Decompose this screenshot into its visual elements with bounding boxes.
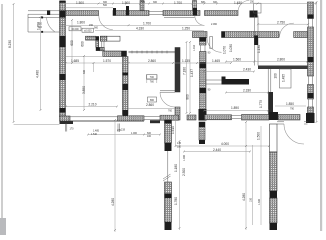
wall W6 right-lower vertical thin part — [268, 69, 271, 92]
svg-text:900: 900 — [94, 27, 99, 30]
pier in W2 — [126, 6, 129, 16]
door arc in W3 left — [207, 38, 222, 53]
svg-text:±0.000: ±0.000 — [84, 29, 92, 32]
svg-text:2.060: 2.060 — [211, 23, 218, 26]
wall W3 horizontal mid-right segment a — [193, 32, 208, 38]
window in W2 — [149, 12, 163, 15]
svg-text:100: 100 — [274, 73, 278, 79]
svg-text:700: 700 — [150, 76, 155, 79]
left margin dim line — [13, 4, 15, 122]
dim line 2.210 — [66, 106, 117, 108]
wall bottom exterior left corner hatch — [60, 116, 71, 121]
svg-text:1.485: 1.485 — [282, 74, 286, 82]
svg-text:1.430: 1.430 — [234, 1, 242, 5]
svg-text:1.500: 1.500 — [76, 1, 84, 5]
wall top exterior W2 segment a — [66, 11, 99, 16]
svg-text:1.000: 1.000 — [131, 132, 138, 135]
svg-text:1.570: 1.570 — [103, 59, 111, 63]
svg-text:2.860: 2.860 — [148, 59, 156, 63]
svg-text:1.000: 1.000 — [183, 154, 186, 161]
svg-text:780: 780 — [150, 80, 155, 83]
wall top exterior W2 segment d — [205, 11, 239, 16]
pier in W2 — [113, 8, 116, 16]
dim line y146 below — [176, 145, 270, 147]
wall W9 interior vertical dark — [175, 48, 180, 93]
svg-text:7.180: 7.180 — [182, 67, 186, 75]
bathroom L-wall horizontal — [222, 79, 250, 85]
svg-text:4.000: 4.000 — [221, 142, 229, 146]
page bottom edge shadow — [0, 218, 6, 235]
bathroom L-wall vertical — [222, 77, 226, 85]
svg-text:100: 100 — [177, 146, 182, 149]
svg-text:150: 150 — [249, 197, 252, 202]
svg-text:1.250: 1.250 — [182, 27, 190, 31]
svg-text:250: 250 — [250, 0, 255, 3]
svg-text:4.280: 4.280 — [111, 198, 115, 206]
door leaf at W9 — [160, 91, 175, 93]
svg-text:1.700: 1.700 — [143, 21, 151, 25]
wall W5 horizontal dark right — [258, 66, 308, 70]
dim line 2.860 lower — [129, 107, 176, 109]
svg-text:170: 170 — [70, 128, 75, 131]
black block bottom wall — [269, 112, 278, 120]
dim verticals bottom right — [253, 126, 262, 225]
svg-text:4.280: 4.280 — [242, 193, 246, 201]
chimney stub above W2 — [193, 1, 197, 11]
door arc bottom right — [284, 124, 304, 144]
svg-text:500: 500 — [141, 1, 146, 4]
door arc in W2 right end — [238, 0, 249, 11]
svg-text:1.685: 1.685 — [71, 59, 79, 63]
door jambs bottom wall — [232, 115, 242, 118]
dim vertical x84 — [83, 56, 85, 110]
dim line 1.850 — [275, 105, 306, 107]
wall W3 segment c — [294, 32, 308, 38]
svg-text:150: 150 — [89, 24, 94, 27]
dim line 2.330 — [226, 92, 268, 94]
level boxes entry — [69, 27, 81, 31]
wall top exterior W2 segment b — [113, 11, 149, 16]
jamb piece in W3 door gap — [210, 37, 213, 49]
wall below-plan left vertical — [165, 120, 172, 143]
svg-text:1.560: 1.560 — [233, 58, 241, 62]
svg-text:1.610: 1.610 — [171, 126, 175, 134]
pillar box above W2 end — [254, 3, 261, 13]
terrace side jambs below — [65, 124, 119, 133]
svg-text:219: 219 — [121, 129, 126, 132]
chimney stub above W2 — [140, 1, 144, 11]
wall bottom segment d — [278, 115, 300, 121]
WC wall vertical — [96, 40, 99, 47]
svg-text:680: 680 — [201, 1, 206, 4]
wall W4 black block — [254, 36, 258, 46]
wall top exterior W2 segment c — [163, 11, 200, 16]
svg-text:±0.000: ±0.000 — [71, 28, 79, 31]
dim vertical x179.5 below — [179, 141, 181, 230]
dim below plan left — [14, 124, 60, 126]
svg-text:2.500: 2.500 — [182, 168, 186, 176]
dim vertical x246 below — [245, 122, 247, 230]
partition lines right below plan — [277, 122, 308, 124]
svg-text:1.500: 1.500 — [257, 132, 261, 140]
WC wall to W10 — [100, 47, 105, 50]
svg-text:1.070: 1.070 — [223, 46, 227, 54]
svg-text:1.485: 1.485 — [93, 130, 100, 133]
svg-text:1.850: 1.850 — [286, 102, 294, 106]
window in bottom wall — [144, 116, 160, 119]
svg-text:1.130: 1.130 — [257, 45, 261, 53]
corner block bottom right — [306, 113, 315, 123]
wall bottom segment at W8 — [118, 116, 145, 121]
svg-text:4.330: 4.330 — [136, 27, 144, 31]
wall W10 hatched band — [103, 51, 127, 57]
door arc in W3 right to terrace — [280, 23, 294, 37]
page right edge shadow — [320, 0, 322, 231]
svg-text:860: 860 — [186, 94, 190, 100]
door arc in W2 mid-right — [195, 16, 205, 26]
porch outline — [28, 14, 60, 32]
dim line y56.5 left — [66, 56, 104, 58]
svg-text:760: 760 — [168, 110, 173, 113]
dim line 1.890 — [204, 110, 268, 112]
dim line y151 below — [184, 151, 250, 153]
wall bottom segment mid — [160, 115, 179, 120]
svg-text:1.890: 1.890 — [231, 106, 239, 110]
dim line 2.750 terrace — [258, 23, 308, 25]
svg-text:2.800: 2.800 — [277, 58, 285, 62]
left inner dim line — [40, 17, 42, 110]
porch pier — [47, 10, 50, 15]
door arc in W9 — [160, 92, 175, 107]
WC wall horizontal hatched — [86, 36, 96, 40]
svg-text:1.010: 1.010 — [193, 44, 196, 51]
svg-text:2.430: 2.430 — [243, 68, 251, 72]
top dim line 1 — [62, 3, 316, 5]
svg-text:1.540: 1.540 — [91, 133, 98, 136]
svg-text:1.700: 1.700 — [36, 22, 40, 30]
svg-text:100: 100 — [147, 135, 152, 138]
dark lip under bottom wall left — [60, 121, 74, 124]
svg-text:300: 300 — [153, 1, 158, 4]
wall bottom segment c — [242, 115, 270, 121]
svg-text:3.850: 3.850 — [82, 86, 86, 94]
svg-text:1.500: 1.500 — [122, 1, 130, 5]
svg-text:2.330: 2.330 — [243, 89, 251, 93]
svg-text:860: 860 — [150, 99, 155, 102]
dim vertical x93.5 — [93, 63, 95, 72]
wall bottom small segment — [187, 115, 196, 120]
svg-text:1.775: 1.775 — [259, 100, 263, 108]
porch hinge nubs — [41, 17, 43, 19]
svg-text:8.230: 8.230 — [8, 40, 12, 48]
svg-text:2.210: 2.210 — [89, 103, 97, 107]
svg-text:1.780: 1.780 — [174, 197, 178, 205]
wall right exterior W7 — [308, 2, 314, 19]
svg-text:790: 790 — [290, 108, 295, 111]
dim line below windows — [88, 134, 160, 136]
wall W3 segment b — [222, 32, 280, 38]
corner block end of W2 — [250, 11, 258, 18]
svg-text:2.440: 2.440 — [213, 148, 221, 152]
svg-text:1.030: 1.030 — [229, 44, 233, 52]
door leaf rect right-mid — [280, 69, 292, 88]
svg-text:1.300: 1.300 — [258, 198, 261, 205]
svg-text:1.800: 1.800 — [77, 21, 85, 25]
wall stub below plan mid — [199, 122, 205, 140]
dim line 2.430 — [204, 71, 254, 73]
svg-text:270: 270 — [117, 129, 122, 132]
dim verticals x186 x190 — [187, 42, 191, 113]
thin wall W11 to bathroom — [206, 80, 222, 84]
wall W8 interior vertical — [123, 57, 129, 115]
svg-text:1.437: 1.437 — [190, 69, 194, 77]
svg-text:500: 500 — [103, 4, 108, 7]
svg-text:300: 300 — [213, 1, 218, 4]
terrace opening in bottom wall — [70, 117, 118, 121]
dim line 4.330 — [95, 30, 204, 32]
door arc in W2 left — [99, 16, 113, 30]
dim vertical x175.5 below — [175, 115, 177, 146]
wall left exterior W1 — [60, 1, 66, 117]
thin wall stub vertical — [102, 41, 104, 51]
dim vertical x72 — [71, 20, 73, 63]
top dim line 2 — [65, 7, 113, 9]
break marks on wall — [163, 174, 171, 181]
wall W6 dark part — [268, 92, 273, 120]
svg-text:1.700: 1.700 — [174, 1, 182, 5]
wall bottom segment long — [205, 115, 232, 120]
terrace step edge line — [73, 120, 144, 122]
svg-text:300: 300 — [83, 69, 86, 74]
dim line room widths y63 — [66, 62, 232, 64]
small box wall piece top-middle — [100, 36, 120, 41]
wall below-plan right vertical — [270, 124, 278, 152]
dim vertical x115 below — [114, 120, 116, 232]
svg-text:1.135: 1.135 — [182, 59, 190, 63]
mid-room small dim — [147, 75, 157, 83]
right margin dim line — [316, 2, 318, 122]
svg-text:1.465: 1.465 — [212, 59, 220, 63]
svg-text:1.180: 1.180 — [174, 164, 178, 172]
svg-text:2.750: 2.750 — [277, 21, 285, 25]
porch wall top-left thin — [28, 11, 60, 14]
svg-text:600: 600 — [81, 41, 85, 47]
door arc porch — [47, 18, 56, 32]
page left edge shadow — [1, 4, 3, 230]
dim line right y61.5 — [226, 61, 307, 63]
svg-text:2.860: 2.860 — [146, 103, 154, 107]
svg-text:4.480: 4.480 — [36, 70, 40, 78]
wall W4 thin vertical vestibule — [254, 16, 258, 66]
dim line 1.800 — [62, 24, 203, 26]
corridor face line — [164, 16, 195, 18]
svg-text:600: 600 — [70, 40, 74, 46]
thin partition line to W9 — [129, 51, 176, 53]
wall W11 interior vertical — [200, 38, 207, 46]
